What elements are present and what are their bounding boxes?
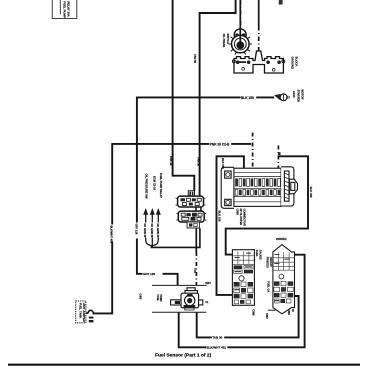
svg-text:GRY 120: GRY 120 bbox=[135, 224, 139, 235]
svg-text:C587: C587 bbox=[265, 313, 268, 319]
svg-text:BLK/WHT 451: BLK/WHT 451 bbox=[206, 346, 226, 350]
ground block terminals bbox=[236, 60, 281, 71]
bottom border line bbox=[8, 364, 360, 366]
I/P cluster connector pins row 1 bbox=[235, 178, 280, 186]
svg-text:MOTOR: MOTOR bbox=[301, 90, 305, 100]
wire C inline label BLK 150 bbox=[241, 96, 257, 100]
wire from arrows junction up to connector C100 bottom bbox=[152, 228, 200, 247]
ground bolt to starter motor bbox=[274, 94, 290, 101]
svg-text:PNK 39 C2-B: PNK 39 C2-B bbox=[210, 142, 230, 146]
svg-text:FUEL PUMP: FUEL PUMP bbox=[62, 1, 66, 18]
wire D vertical to inline resistor bbox=[93, 144, 113, 314]
svg-text:PRINTED: PRINTED bbox=[276, 238, 287, 241]
hatch marks on right cap bar bbox=[285, 173, 290, 199]
svg-text:Fuel Sensor (Part 1 of 2): Fuel Sensor (Part 1 of 2) bbox=[155, 352, 212, 358]
svg-text:ECM C2-10: ECM C2-10 bbox=[152, 176, 156, 191]
label under resistor bbox=[89, 317, 94, 319]
outer loop inline label bbox=[206, 346, 227, 350]
fuel pump and sender assembly bbox=[171, 288, 203, 308]
fuel tank top line bbox=[152, 284, 207, 286]
C100 lower connector half bbox=[176, 211, 206, 228]
svg-text:BLOCK: BLOCK bbox=[295, 57, 299, 67]
svg-text:GRY 120: GRY 120 bbox=[143, 272, 156, 276]
wire D inline label PNK 39 bbox=[209, 142, 231, 146]
svg-text:BLK 150: BLK 150 bbox=[309, 187, 313, 198]
ground block (crenellated) bbox=[234, 51, 283, 73]
svg-text:RELAY 20A: RELAY 20A bbox=[66, 1, 70, 17]
svg-text:FUEL PUMP RELAY: FUEL PUMP RELAY bbox=[159, 173, 163, 198]
tiny label above right corner bbox=[278, 152, 281, 155]
C100 upper connector half bbox=[176, 191, 206, 207]
svg-text:OIL PRESS: OIL PRESS bbox=[222, 34, 226, 48]
svg-text:SWITCH: SWITCH bbox=[226, 34, 230, 44]
tiny text marks inside gauges module bbox=[234, 253, 252, 296]
svg-text:CL: CL bbox=[205, 301, 209, 304]
svg-text:INST: INST bbox=[205, 282, 211, 285]
wire C inline vertical label GRY 120 bbox=[135, 223, 139, 239]
svg-text:C588: C588 bbox=[287, 309, 290, 315]
svg-text:PNK 39: PNK 39 bbox=[169, 156, 173, 166]
svg-text:GROUND: GROUND bbox=[291, 57, 295, 69]
svg-text:BLK 150: BLK 150 bbox=[241, 96, 254, 100]
svg-text:TAN 30: TAN 30 bbox=[196, 157, 200, 167]
arrows to oil pressure sender / ECM / fuel pump relay bbox=[143, 208, 161, 248]
splice label box (dashed) bbox=[76, 301, 87, 323]
wire C inline label on horizontal near tank bbox=[143, 272, 163, 276]
wire I solid then dashed from C100 tab down to fuel sender bbox=[195, 228, 197, 252]
wire D horizontal bbox=[111, 143, 251, 145]
wire from fuel pump left output to printed circuit loop (outer) bbox=[179, 255, 305, 348]
wire G dash-dot from ground block area into I/P connector bbox=[252, 133, 254, 173]
svg-text:30: 30 bbox=[291, 309, 294, 312]
wire B bbox=[200, 0, 236, 195]
wire T2 loop: ground tap right side down to gauges module bbox=[226, 156, 308, 254]
wire D inline vertical label bbox=[110, 225, 114, 244]
top right cut-off text bbox=[279, 0, 283, 5]
svg-text:C305: C305 bbox=[139, 294, 142, 300]
svg-text:STARTER: STARTER bbox=[296, 90, 300, 103]
svg-text:G104: G104 bbox=[292, 91, 296, 98]
svg-text:GAUGE: GAUGE bbox=[258, 250, 262, 260]
fuel tank bottom line bbox=[152, 311, 207, 313]
svg-text:DK GRN 30: DK GRN 30 bbox=[156, 224, 160, 238]
wire T1 loop: I/P connector pin around left down to gauges module bbox=[217, 156, 244, 295]
svg-text:TAN 30: TAN 30 bbox=[212, 336, 222, 340]
inner loop inline label bbox=[212, 336, 224, 340]
inline resistor (fuel sender wire) bbox=[85, 310, 93, 313]
C100 connector gap wires bbox=[195, 207, 197, 211]
wire C vertical to fuel tank bbox=[137, 97, 178, 286]
svg-text:UNIT JUMPER: UNIT JUMPER bbox=[82, 303, 86, 322]
svg-text:CONNECTOR: CONNECTOR bbox=[243, 209, 247, 226]
oil pressure switch connector (round, top view) bbox=[229, 0, 252, 55]
fuse block legend box bbox=[52, 0, 77, 19]
svg-text:PUMP: PUMP bbox=[159, 295, 162, 303]
svg-text:FUEL TANK: FUEL TANK bbox=[78, 303, 82, 319]
svg-text:I/P CLUSTER: I/P CLUSTER bbox=[239, 209, 243, 226]
svg-text:DK GRN 30: DK GRN 30 bbox=[150, 224, 154, 238]
svg-text:BLK 150: BLK 150 bbox=[221, 158, 225, 169]
wire E dash-dot into ground block funnel bbox=[258, 26, 260, 51]
arrow wire code labels bbox=[143, 223, 147, 238]
wire from fuel sender output to printed circuit loop (inner) bbox=[197, 296, 299, 337]
tiny text marks inside printed circuit module bbox=[274, 254, 290, 301]
stub wire at printed circuit bottom left bbox=[268, 309, 276, 311]
printed circuit module (right, shield shape) bbox=[273, 245, 295, 314]
wire F dash-dot into oil pressure switch connector bbox=[239, 0, 241, 31]
svg-text:BLK 150: BLK 150 bbox=[218, 211, 222, 222]
svg-text:DK GRN 30: DK GRN 30 bbox=[143, 224, 147, 238]
ground block outer terminals bbox=[232, 60, 235, 63]
I/P cluster connector right cap bbox=[281, 167, 297, 206]
svg-text:PRINTED: PRINTED bbox=[265, 257, 268, 268]
gauges cluster module (left) bbox=[232, 250, 254, 306]
I/P cluster connector main body bbox=[234, 168, 281, 206]
wire E solid top segment into dashed feed bbox=[258, 0, 260, 26]
wire H dash-dot into I/P connector right bbox=[277, 146, 279, 173]
svg-text:C588: C588 bbox=[252, 309, 256, 316]
svg-text:CIRCUIT: CIRCUIT bbox=[269, 257, 272, 268]
I/P cluster connector pins row 2 bbox=[235, 190, 280, 196]
wire A bbox=[173, 0, 195, 191]
svg-text:FUEL: FUEL bbox=[156, 295, 159, 302]
I/P cluster connector left cap bbox=[221, 167, 234, 208]
wire C horizontal to starter bolt bbox=[137, 96, 274, 98]
svg-text:FUEL GA: FUEL GA bbox=[266, 281, 269, 292]
svg-text:TAN 30: TAN 30 bbox=[193, 54, 197, 64]
svg-text:BLK/WHT 451: BLK/WHT 451 bbox=[110, 226, 114, 244]
svg-text:OIL PRESSURE SW: OIL PRESSURE SW bbox=[144, 174, 148, 200]
svg-text:C588: C588 bbox=[236, 209, 240, 216]
svg-text:TAN: TAN bbox=[193, 268, 196, 273]
